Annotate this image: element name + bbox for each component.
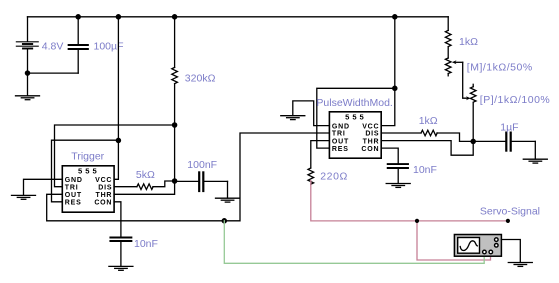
wire top rail	[28, 16, 449, 18]
svg-text:CON: CON	[361, 146, 379, 153]
wire P to modulation node	[472, 103, 474, 142]
svg-text:THR: THR	[363, 138, 380, 145]
svg-text:5kΩ: 5kΩ	[136, 169, 155, 181]
svg-text:RES: RES	[332, 146, 349, 153]
node battery negative	[25, 71, 29, 75]
IC U2 PulseWidthMod 555	[329, 112, 381, 158]
svg-text:10nF: 10nF	[134, 238, 158, 250]
node C1 top	[76, 15, 80, 19]
wire PWM OUT	[311, 141, 330, 168]
svg-text:Servo-Signal: Servo-Signal	[480, 206, 540, 218]
capacitor C1 100uF	[69, 17, 88, 73]
wire M wiper to P wiper	[463, 62, 467, 98]
svg-text:10nF: 10nF	[413, 164, 437, 176]
wire timing node vertical	[174, 125, 176, 181]
svg-text:555: 555	[78, 166, 100, 175]
ground C2	[216, 181, 240, 202]
wire negative rail	[28, 72, 79, 74]
wire Trigger GND	[24, 179, 63, 195]
wire scope to ground	[501, 240, 532, 267]
svg-text:555: 555	[345, 112, 367, 121]
capacitor C3 10nF	[110, 238, 131, 242]
wire Trigger VCC	[114, 140, 118, 179]
wire servo signal (red)	[311, 181, 508, 260]
svg-text:1µF: 1µF	[500, 122, 518, 134]
svg-text:1kΩ: 1kΩ	[419, 115, 438, 127]
ground scope	[508, 262, 532, 264]
svg-text:THR: THR	[96, 192, 113, 199]
node DIS/THR junction	[173, 179, 177, 183]
svg-text:320kΩ: 320kΩ	[185, 72, 216, 84]
wire Trigger OUT to PWM TRI	[47, 133, 330, 221]
wire PWM CON	[381, 148, 398, 163]
node PWM VCC tap top	[393, 15, 397, 19]
node Trigger VCC/RES junction	[116, 138, 120, 142]
resistor R3 1kohm PWM DIS	[381, 130, 473, 141]
svg-text:OUT: OUT	[332, 138, 349, 145]
svg-text:[M]/1kΩ/50%: [M]/1kΩ/50%	[467, 62, 533, 74]
svg-text:RES: RES	[65, 200, 82, 207]
wire VCC drop to Trigger	[117, 17, 119, 141]
capacitor C5 1uF	[473, 133, 535, 151]
svg-text:PulseWidthMod.: PulseWidthMod.	[316, 97, 392, 109]
resistor R1 320kohm	[172, 17, 178, 125]
node PWM RES/VCC junction	[393, 86, 397, 90]
ground battery	[16, 73, 40, 100]
resistor R4 1kohm chain	[445, 17, 451, 58]
svg-text:DIS: DIS	[365, 131, 379, 138]
capacitor C4 10nF	[388, 164, 408, 168]
svg-text:VCC: VCC	[95, 177, 112, 184]
resistor R2 5kohm	[114, 181, 175, 190]
wire PWM RES	[317, 88, 395, 148]
ground C4	[386, 169, 410, 187]
svg-text:TRI: TRI	[332, 131, 346, 138]
oscilloscope	[454, 235, 501, 257]
potentiometer M 1kohm 50%	[445, 58, 462, 76]
capacitor C2 100nF	[175, 172, 228, 191]
IC U1 Trigger 555	[62, 166, 114, 212]
resistor R5 220ohm	[308, 168, 314, 184]
ground C3	[109, 242, 133, 270]
svg-text:4.8V: 4.8V	[42, 40, 64, 52]
svg-text:[P]/1kΩ/100%: [P]/1kΩ/100%	[480, 94, 550, 106]
wire PWM VCC riser	[394, 17, 396, 89]
wire scope probe (red)	[417, 221, 491, 260]
ground Trigger GND	[12, 195, 36, 199]
svg-text:DIS: DIS	[98, 184, 112, 191]
svg-text:Trigger: Trigger	[71, 150, 104, 162]
node servo tap	[415, 219, 419, 223]
ground PWM GND	[281, 116, 305, 120]
ground C5	[523, 141, 547, 163]
wire PWM GND	[293, 101, 330, 126]
wire PWM VCC	[381, 88, 395, 125]
wire Trigger THR	[114, 181, 175, 194]
node servo ground tap	[222, 219, 226, 223]
potentiometer P 1kohm 100%	[466, 84, 476, 102]
svg-text:GND: GND	[332, 123, 350, 130]
svg-text:VCC: VCC	[362, 123, 379, 130]
node servo terminal	[506, 219, 510, 223]
svg-text:OUT: OUT	[65, 192, 82, 199]
svg-text:CON: CON	[94, 200, 112, 207]
wire Trigger CON	[114, 202, 121, 237]
node VCC tap top	[116, 15, 120, 19]
svg-text:220Ω: 220Ω	[320, 171, 348, 183]
node TRI tap	[173, 123, 177, 127]
wire Trigger TRI	[55, 125, 175, 187]
wire scope ground (green)	[224, 221, 484, 263]
node 320k top	[173, 15, 177, 19]
svg-text:1kΩ: 1kΩ	[459, 36, 478, 48]
battery BAT1 4.8V	[16, 17, 38, 73]
wire PWM THR	[381, 141, 473, 156]
node modulation junction	[471, 139, 475, 143]
svg-text:TRI: TRI	[65, 184, 79, 191]
wire Trigger RES	[52, 140, 119, 202]
svg-text:GND: GND	[65, 177, 83, 184]
svg-text:100nF: 100nF	[187, 159, 217, 171]
